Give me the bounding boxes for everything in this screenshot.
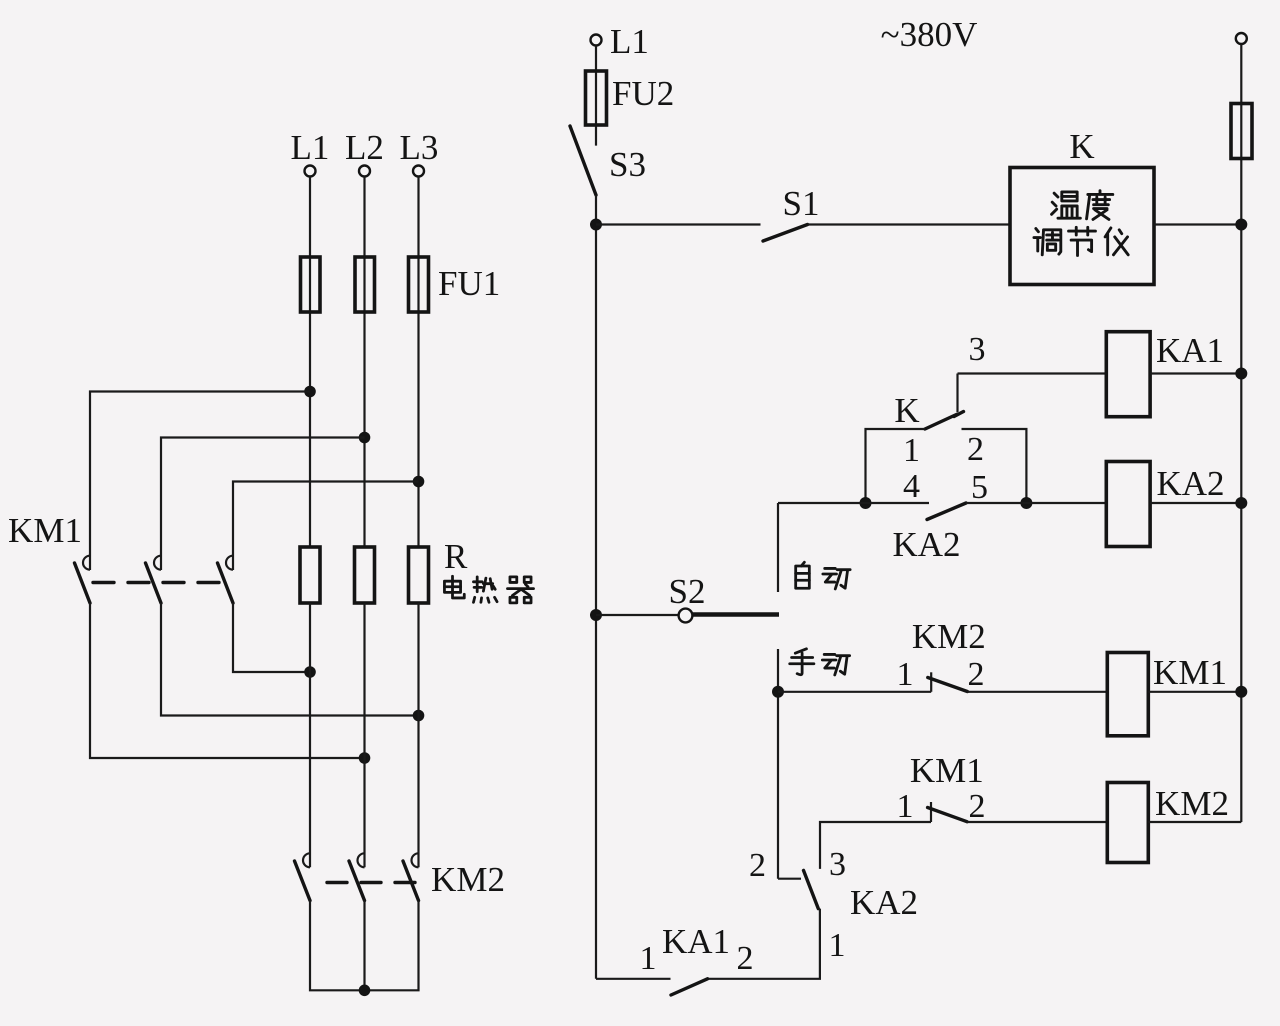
wire KA2 changeover terminal 2 bbox=[778, 878, 801, 880]
svg-text:L2: L2 bbox=[345, 128, 384, 167]
wire auto branch vertical bbox=[777, 503, 779, 592]
svg-text:2: 2 bbox=[967, 431, 984, 468]
wire KM2 pole 2 down bbox=[363, 901, 365, 991]
node right terminal bbox=[1236, 33, 1247, 44]
contact KA2 changeover blade bbox=[804, 870, 819, 908]
contactor KM1 pole 1 bbox=[75, 556, 91, 604]
relay coil KM1 bbox=[1107, 653, 1148, 736]
contact KM1 NC tick bbox=[930, 802, 932, 822]
svg-text:FU2: FU2 bbox=[612, 74, 674, 113]
svg-text:K: K bbox=[1069, 127, 1094, 166]
svg-text:2: 2 bbox=[749, 847, 766, 884]
contactor KM2 pole 3 bbox=[403, 853, 419, 900]
svg-text:KA1: KA1 bbox=[1156, 331, 1224, 370]
wire K box to right rail bbox=[1154, 223, 1241, 225]
contact K blade bbox=[925, 414, 958, 429]
wire KM2 coil row left vertical bbox=[820, 822, 931, 869]
wire KM1 pole 1 out to L2 column bbox=[90, 603, 365, 758]
wire S2 row bbox=[596, 614, 679, 616]
KM1 linkage dashed line bbox=[93, 581, 228, 584]
resistor heater element 1 bbox=[300, 547, 320, 603]
KM2 linkage dashed line bbox=[327, 881, 415, 884]
junction dot left rail S2 row bbox=[590, 609, 602, 621]
svg-text:1: 1 bbox=[829, 927, 846, 964]
junction dot on L1 column bbox=[304, 666, 316, 678]
svg-text:L1: L1 bbox=[291, 128, 330, 167]
svg-text:KA2: KA2 bbox=[850, 883, 918, 922]
contact KM2 NC tick bbox=[930, 672, 932, 692]
contactor KM1 pole 3 bbox=[218, 556, 234, 604]
svg-text:KM1: KM1 bbox=[910, 751, 984, 790]
svg-text:1: 1 bbox=[640, 940, 657, 977]
switch S2 blade bbox=[693, 612, 779, 617]
junction dot right rail KA1 row bbox=[1235, 368, 1247, 380]
wire KA1 coil to right rail bbox=[1150, 372, 1241, 374]
wire KM1 coil row left bbox=[778, 691, 931, 693]
junction dot right rail row 1 bbox=[1235, 219, 1247, 231]
wire L2 tap to KM1 pole 2 bbox=[161, 438, 365, 556]
svg-text:KA2: KA2 bbox=[1156, 464, 1224, 503]
junction dot right rail KM1 row bbox=[1235, 686, 1247, 698]
resistor heater element 2 bbox=[355, 547, 375, 603]
wire L3 tap to KM1 pole 3 bbox=[233, 482, 419, 556]
contact KA2 blade (4-5) bbox=[927, 503, 966, 520]
junction dot right rail KA2 row bbox=[1235, 497, 1247, 509]
svg-text:KM1: KM1 bbox=[8, 511, 82, 550]
label 调节仪 bbox=[1034, 227, 1128, 255]
wire L1 column lower bbox=[309, 603, 311, 867]
junction dot on L3 column bbox=[413, 710, 425, 722]
svg-text:KM1: KM1 bbox=[1153, 653, 1227, 692]
svg-text:S2: S2 bbox=[669, 572, 706, 611]
svg-text:S1: S1 bbox=[783, 184, 820, 223]
node L1 terminal bbox=[305, 166, 316, 177]
resistor heater element 3 bbox=[409, 547, 429, 603]
svg-text:2: 2 bbox=[737, 940, 754, 977]
wire KA2 changeover common down bbox=[708, 909, 820, 979]
wire manual branch vertical bbox=[777, 649, 779, 879]
svg-text:K: K bbox=[894, 391, 919, 430]
fuse FU1 element 3 bbox=[409, 257, 429, 312]
svg-text:5: 5 bbox=[971, 469, 988, 506]
wire KA2 row right bbox=[966, 502, 1106, 504]
fuse FU2 bbox=[586, 71, 607, 125]
wire KM1 pole 3 out to L1 column bbox=[233, 603, 310, 672]
wire KM2 pole 1 down bbox=[310, 901, 365, 991]
wire KM1 coil to right rail bbox=[1148, 691, 1241, 693]
wire right rail bbox=[1240, 44, 1242, 822]
svg-text:1: 1 bbox=[897, 656, 914, 693]
label heater 电热器 bbox=[444, 576, 533, 603]
junction dot KA2 row right bbox=[1020, 497, 1032, 509]
svg-text:KM2: KM2 bbox=[912, 617, 986, 656]
wire KM2 coil row right bbox=[966, 821, 1107, 823]
svg-text:4: 4 bbox=[903, 468, 920, 505]
svg-text:S3: S3 bbox=[609, 145, 646, 184]
wire KA1 row bbox=[958, 372, 1107, 374]
label 手动 bbox=[790, 649, 850, 675]
junction dot L3-KM1 tap bbox=[413, 476, 425, 488]
wire L2 phase column upper bbox=[363, 177, 365, 548]
label 自动 bbox=[796, 562, 850, 589]
svg-text:KM2: KM2 bbox=[1155, 784, 1229, 823]
wire K contact left arm bbox=[866, 429, 926, 503]
svg-text:KA1: KA1 bbox=[662, 922, 730, 961]
svg-text:1: 1 bbox=[903, 432, 920, 469]
svg-text:L3: L3 bbox=[400, 128, 439, 167]
fuse FU1 element 2 bbox=[355, 257, 375, 312]
contactor KM1 pole 2 bbox=[146, 556, 162, 604]
relay coil KM2 bbox=[1107, 783, 1148, 863]
wire KM2 coil to right rail bbox=[1148, 821, 1241, 823]
junction dot L2-KM1 tap bbox=[359, 432, 371, 444]
svg-text:1: 1 bbox=[897, 788, 914, 825]
wire L1 phase column upper bbox=[309, 177, 311, 548]
junction dot KA2 row left bbox=[860, 497, 872, 509]
contact K fixed tick bbox=[954, 412, 964, 417]
fuse right rail bbox=[1231, 104, 1252, 159]
svg-text:~380V: ~380V bbox=[881, 15, 978, 54]
wire KA2 row left bbox=[778, 502, 929, 504]
junction dot manual branch bbox=[772, 686, 784, 698]
svg-text:R: R bbox=[444, 537, 468, 576]
wire L1 tap to KM1 pole 1 bbox=[90, 392, 310, 556]
wire KM1 pole 2 out to L3 column bbox=[161, 603, 419, 716]
wire L3 column lower bbox=[417, 603, 419, 867]
wire left rail bbox=[595, 195, 597, 979]
svg-text:3: 3 bbox=[969, 331, 986, 368]
node L3 terminal bbox=[413, 166, 424, 177]
switch S1 blade bbox=[763, 225, 808, 242]
wire L3 phase column upper bbox=[417, 177, 419, 548]
svg-text:KA2: KA2 bbox=[892, 525, 960, 564]
wire K contact upper vertical bbox=[956, 374, 958, 413]
svg-text:3: 3 bbox=[829, 846, 846, 883]
wire K contact right arm bbox=[962, 429, 1027, 503]
svg-text:2: 2 bbox=[969, 788, 986, 825]
contact KM2 NC blade bbox=[928, 678, 968, 692]
junction dot left rail top row bbox=[590, 219, 602, 231]
wire KM1 coil row right bbox=[967, 691, 1108, 693]
svg-text:FU1: FU1 bbox=[438, 264, 500, 303]
switch S3 blade bbox=[570, 126, 596, 195]
fuse FU1 element 1 bbox=[301, 257, 321, 312]
junction dot star point bbox=[359, 985, 371, 997]
wire S1 to K box bbox=[808, 223, 1011, 225]
node L1 terminal (control) bbox=[591, 35, 602, 46]
relay coil KA1 bbox=[1106, 332, 1150, 417]
junction dot L1-KM1 tap bbox=[304, 386, 316, 398]
contact KM1 NC blade bbox=[928, 808, 967, 822]
svg-text:2: 2 bbox=[968, 656, 985, 693]
temperature controller K box bbox=[1010, 168, 1154, 285]
svg-text:L1: L1 bbox=[610, 22, 649, 61]
label 温度 bbox=[1052, 191, 1113, 220]
wire L2 column lower bbox=[363, 603, 365, 867]
wire KM2 pole 3 down bbox=[365, 901, 419, 991]
contactor KM2 pole 2 bbox=[349, 853, 365, 900]
wire top row to S1 bbox=[596, 223, 761, 225]
contactor KM2 pole 1 bbox=[295, 853, 311, 900]
switch S2 pivot circle bbox=[679, 609, 693, 623]
node L2 terminal bbox=[359, 166, 370, 177]
wire bottom row left bbox=[596, 978, 671, 980]
relay coil KA2 bbox=[1106, 462, 1150, 547]
wire left rail top bbox=[595, 46, 597, 146]
junction dot on L2 column bbox=[359, 752, 371, 764]
wire KA2 coil to right rail bbox=[1150, 502, 1241, 504]
svg-text:KM2: KM2 bbox=[431, 860, 505, 899]
contact KA1 blade bbox=[671, 979, 708, 995]
